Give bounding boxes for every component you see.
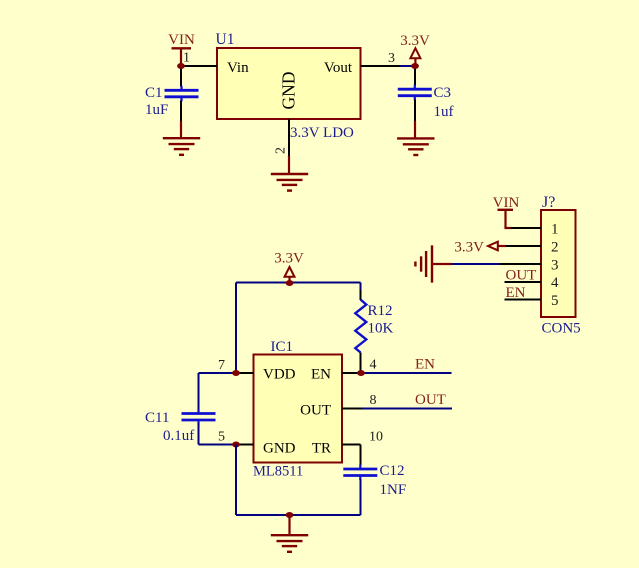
svg-text:2: 2 [551, 240, 559, 256]
svg-text:OUT: OUT [415, 392, 446, 408]
svg-text:C1: C1 [145, 85, 163, 101]
svg-text:J?: J? [542, 194, 555, 211]
svg-text:GND: GND [263, 441, 296, 457]
svg-text:Vout: Vout [324, 60, 353, 76]
svg-text:VIN: VIN [168, 32, 195, 48]
svg-text:EN: EN [415, 357, 435, 373]
svg-text:3: 3 [388, 51, 395, 66]
svg-text:U1: U1 [216, 31, 235, 48]
svg-text:3.3V LDO: 3.3V LDO [290, 125, 354, 141]
svg-text:CON5: CON5 [542, 321, 581, 337]
svg-text:C11: C11 [145, 410, 169, 426]
svg-text:3.3V: 3.3V [454, 240, 484, 256]
svg-text:OUT: OUT [300, 403, 331, 419]
svg-text:VIN: VIN [493, 195, 520, 211]
svg-text:1uf: 1uf [434, 104, 454, 120]
svg-text:IC1: IC1 [271, 339, 294, 355]
svg-text:1NF: 1NF [380, 482, 407, 498]
svg-text:C3: C3 [434, 85, 452, 101]
svg-text:10K: 10K [368, 321, 394, 337]
svg-text:VDD: VDD [263, 367, 296, 383]
svg-text:C12: C12 [380, 463, 405, 479]
svg-text:GND: GND [279, 72, 299, 110]
svg-text:OUT: OUT [506, 268, 537, 284]
svg-text:4: 4 [551, 275, 559, 291]
svg-text:3.3V: 3.3V [274, 251, 304, 267]
svg-text:Vin: Vin [227, 60, 249, 76]
svg-text:ML8511: ML8511 [253, 464, 303, 480]
svg-text:0.1uf: 0.1uf [163, 428, 194, 444]
svg-text:5: 5 [218, 430, 225, 445]
svg-text:1uF: 1uF [145, 102, 168, 118]
svg-text:R12: R12 [368, 303, 393, 319]
svg-text:3.3V: 3.3V [400, 33, 430, 49]
svg-text:8: 8 [370, 393, 377, 408]
svg-text:TR: TR [312, 441, 331, 457]
svg-text:EN: EN [311, 367, 331, 383]
svg-text:7: 7 [218, 358, 225, 373]
svg-text:1: 1 [551, 222, 559, 238]
svg-text:2: 2 [274, 147, 289, 154]
svg-text:EN: EN [506, 285, 526, 301]
svg-text:10: 10 [369, 430, 383, 445]
svg-text:3: 3 [551, 258, 559, 274]
svg-text:1: 1 [183, 51, 190, 66]
svg-text:5: 5 [551, 293, 559, 309]
svg-text:4: 4 [370, 358, 377, 373]
